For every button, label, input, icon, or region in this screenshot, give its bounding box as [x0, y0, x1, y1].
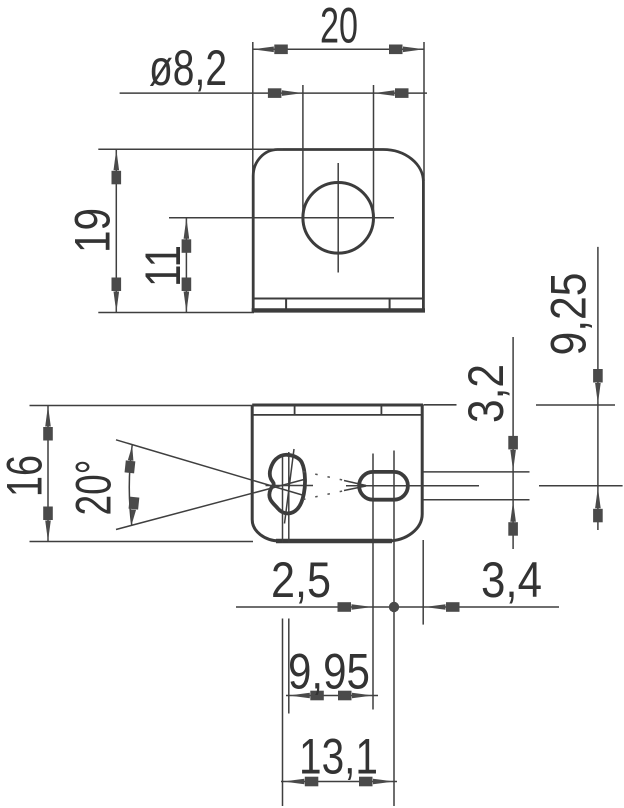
- svg-text:3,2: 3,2: [458, 364, 514, 423]
- svg-text:13,1: 13,1: [299, 729, 378, 785]
- blob tilted line: [285, 449, 295, 524]
- fold tick right: [389, 299, 391, 310]
- slot bottom reference line: [423, 499, 529, 501]
- front fold tick right: [380, 406, 382, 415]
- slot (stadium hole): [359, 472, 408, 500]
- solid ray ends at slot: [344, 481, 366, 486]
- svg-text:9,25: 9,25: [541, 273, 597, 356]
- dimension ø8,2: [302, 85, 304, 218]
- deformed tab hole (blob): [269, 455, 305, 514]
- hole circle ø8.2: [303, 183, 374, 254]
- svg-text:11: 11: [135, 245, 191, 287]
- svg-text:2,5: 2,5: [271, 552, 331, 608]
- top view plate outline: [253, 149, 423, 309]
- svg-text:ø8,2: ø8,2: [149, 40, 227, 96]
- svg-text:9,95: 9,95: [288, 644, 370, 700]
- slot top reference line: [423, 471, 529, 473]
- dimension 9,95: [286, 695, 378, 697]
- blob vertical line E: [282, 455, 284, 543]
- svg-text:20°: 20°: [66, 460, 122, 516]
- dimension 11: [185, 218, 187, 313]
- slot centerline: [346, 485, 479, 487]
- svg-text:3,4: 3,4: [481, 552, 542, 608]
- dimension 3,2: [512, 337, 514, 549]
- extension line F lower part: [288, 619, 290, 714]
- right face extension line C: [422, 540, 424, 625]
- extension line E lower part: [282, 619, 284, 807]
- dimension 13,1: [281, 781, 397, 783]
- dimension 20: [252, 42, 254, 175]
- svg-text:19: 19: [65, 208, 121, 253]
- dimension line 2,5 / 3,4: [236, 606, 559, 608]
- dotted projection rays: [303, 472, 352, 483]
- dimension 16: [30, 405, 254, 407]
- blob vertical line F: [288, 452, 290, 543]
- front fold tick left: [294, 406, 296, 415]
- top view bottom thick edge: [252, 308, 425, 312]
- angle line upper: [116, 440, 304, 496]
- slot left arc-center extension line A: [372, 454, 374, 710]
- top view inner fold line: [253, 298, 424, 300]
- angle dimension arc 20deg: [129, 444, 132, 525]
- front view inner fold line: [253, 414, 422, 416]
- front view outline: [252, 405, 423, 541]
- front view bottom thick edge: [276, 539, 392, 543]
- svg-text:20: 20: [320, 0, 358, 54]
- svg-text:16: 16: [0, 455, 53, 497]
- top edge stub to the right: [423, 404, 456, 406]
- hole vertical centerline: [337, 163, 339, 273]
- angle line lower: [116, 480, 304, 530]
- dimension 19: [98, 148, 283, 150]
- slot right arc-center extension line B: [393, 451, 395, 807]
- blob horizontal centerline: [266, 485, 314, 487]
- hole horizontal centerline (extends left for dim 11): [169, 217, 394, 219]
- fold tick left: [285, 299, 287, 310]
- dimension 9,25: [536, 404, 615, 406]
